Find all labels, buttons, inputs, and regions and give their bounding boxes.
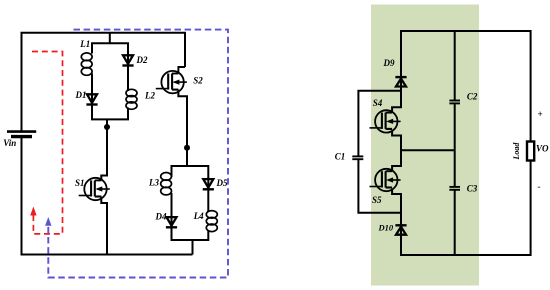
wire S2 drain jog (178, 67, 185, 74)
wire bottom rail (401, 161, 531, 255)
svg-text:D2: D2 (136, 55, 148, 65)
transistor S4 (MOSFET) (370, 110, 401, 132)
capacitor C3 (449, 187, 460, 190)
diode D10 (pointing up) (395, 225, 406, 236)
blue arrowhead (45, 217, 51, 226)
inductor L2 (126, 89, 137, 109)
svg-text:L3: L3 (148, 178, 159, 188)
wire L1 to D1 (91, 74, 93, 95)
wire C2 branch (454, 31, 456, 100)
wire S4 source to S5 drain (392, 130, 401, 171)
wire L3 to D4 (171, 193, 173, 217)
wire branch2 tap to bottom rail (192, 240, 194, 255)
inductor L1 (81, 53, 92, 75)
inductor L4 (206, 211, 217, 232)
battery Vin (7, 132, 36, 137)
diode D2 (122, 54, 133, 66)
wire top rail (22, 33, 186, 131)
svg-text:L1: L1 (79, 39, 90, 49)
diode D5 (203, 177, 214, 189)
wire midpoint to C2/C3 (401, 149, 455, 151)
svg-text:-: - (538, 182, 541, 192)
diode D1 (86, 93, 97, 105)
inductor L3 (161, 173, 172, 195)
svg-text:D5: D5 (216, 178, 228, 188)
transistor S5 (MOSFET) (370, 169, 401, 191)
wire top feed to branch1 (109, 33, 111, 44)
diode D9 (pointing up) (395, 77, 406, 88)
svg-text:+: + (538, 109, 543, 119)
green highlight region (371, 5, 479, 286)
wire branch1 tap down to S1 (101, 119, 107, 180)
svg-text:C1: C1 (335, 151, 346, 161)
wire left/bottom rail (22, 137, 193, 255)
node dot A (branch1 / S1 drain) (104, 124, 110, 130)
node dot B (S2 source / branch2) (184, 145, 190, 151)
svg-text:S2: S2 (193, 76, 203, 86)
svg-text:S4: S4 (373, 98, 383, 108)
wire S2 source down to branch2 (178, 90, 187, 166)
wire C1 branch (358, 91, 401, 156)
capacitor C1 (352, 156, 363, 159)
svg-text:VO: VO (536, 143, 549, 153)
red arrowhead (30, 207, 36, 216)
svg-text:C3: C3 (467, 184, 478, 194)
wire branch1 top (92, 43, 128, 55)
blue dashed current loop (48, 30, 228, 278)
wire D5 to L4 (207, 189, 209, 212)
wire D9 to S4 drain (392, 87, 401, 113)
wire branch2 bottom (172, 227, 209, 240)
transistor S1 (MOSFET) (79, 178, 110, 200)
svg-text:D1: D1 (75, 90, 87, 100)
wire branch2 top (172, 166, 209, 179)
wire S1 source to bottom (101, 197, 107, 255)
svg-text:S5: S5 (372, 195, 382, 205)
svg-text:Vin: Vin (3, 138, 16, 148)
transistor S2 (MOSFET) (156, 67, 187, 93)
svg-text:D4: D4 (155, 212, 167, 222)
capacitor C2 (449, 101, 460, 104)
svg-text:S1: S1 (75, 178, 85, 188)
wire S5 source to D10 (392, 189, 401, 226)
svg-text:D10: D10 (378, 223, 394, 233)
svg-text:C2: C2 (467, 91, 478, 101)
diode D4 (166, 215, 177, 227)
svg-text:D9: D9 (383, 58, 395, 68)
svg-text:L2: L2 (144, 90, 155, 100)
red dashed current loop (32, 52, 63, 234)
load resistor box (527, 142, 534, 161)
wire D2 to L2 (127, 65, 129, 91)
wire top rail (401, 31, 531, 141)
svg-text:Load: Load (512, 142, 521, 161)
svg-text:L4: L4 (193, 211, 204, 221)
wire branch1 bottom (92, 104, 128, 119)
